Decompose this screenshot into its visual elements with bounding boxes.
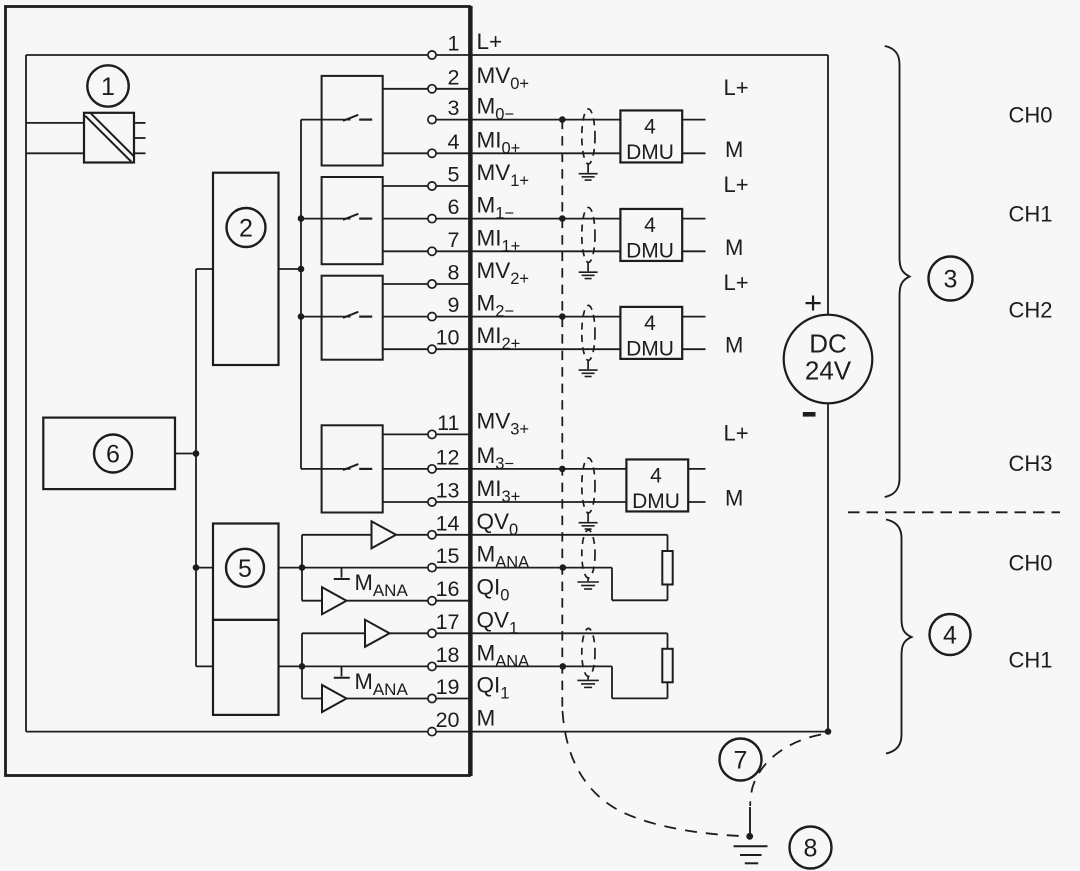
- terminal 9 circle: [428, 313, 436, 321]
- switch S3 fixed contact: [359, 316, 372, 318]
- terminal 19 label QI1: [477, 673, 510, 703]
- svg-text:CH0: CH0: [1009, 551, 1053, 576]
- svg-text:4: 4: [448, 130, 460, 154]
- terminal 13 pin number: [436, 479, 460, 503]
- wire switch S2 bottom output row 7: [383, 250, 432, 252]
- wire row 18 M_ANA: [279, 665, 613, 667]
- node row18 shield tap: [560, 663, 567, 670]
- svg-text:8: 8: [804, 835, 818, 863]
- svg-text:MV0+: MV0+: [477, 63, 530, 93]
- switch S1 fixed contact: [359, 118, 372, 120]
- label L+ ch1: [724, 172, 749, 197]
- terminal 14 label QV0: [477, 509, 519, 539]
- terminal 13 label MI3+: [477, 476, 521, 506]
- wire output bus ch1 vertical: [301, 633, 303, 698]
- shield ground ch1 output: [577, 676, 599, 687]
- wire M row terminal 6 to DMU: [432, 218, 620, 220]
- DMU box 4 ch2: [620, 307, 682, 361]
- DMU box 4 ch0: [620, 110, 682, 164]
- wire switch S1 top output row 2: [383, 88, 432, 90]
- terminal 14 circle: [428, 531, 436, 539]
- wire L+ rail row 1: [26, 54, 828, 56]
- svg-text:L+: L+: [724, 420, 749, 445]
- brace group 4: [886, 520, 912, 754]
- terminal 2 label MV0+: [477, 63, 530, 93]
- wire switch S4 middle output row 12: [383, 468, 432, 470]
- svg-text:M: M: [725, 333, 743, 358]
- block 6 controller box: [43, 418, 175, 490]
- svg-text:5: 5: [238, 555, 252, 583]
- DC 24V source: [784, 315, 873, 404]
- label CH2 input: [1009, 298, 1053, 323]
- node row15 bus junction: [299, 564, 306, 571]
- svg-text:CH1: CH1: [1009, 647, 1053, 672]
- callout circle 7: [720, 739, 762, 781]
- switch S3 blade: [343, 312, 358, 318]
- terminal 5 label MV1+: [477, 160, 530, 190]
- svg-text:M: M: [725, 137, 743, 162]
- terminal 19 circle: [428, 694, 436, 702]
- dashed group separator: [848, 511, 1060, 513]
- svg-text:2: 2: [239, 215, 253, 243]
- node mux bus junction row9: [298, 313, 305, 320]
- op-amp QI1: [322, 685, 347, 712]
- terminal 7 label MI1+: [477, 225, 521, 255]
- wire mux bus to switch S2: [301, 218, 351, 220]
- svg-text:4: 4: [650, 464, 662, 487]
- wire block6 to bus: [175, 453, 196, 455]
- wire DMU ch1 out bottom: [682, 250, 705, 252]
- switch S2 fixed contact: [359, 218, 372, 220]
- svg-text:17: 17: [436, 610, 460, 634]
- svg-text:+: +: [804, 285, 822, 320]
- wire to amp QV0: [302, 534, 372, 536]
- wire DMU ch2 out bottom: [682, 348, 705, 350]
- terminal 11 pin number: [437, 411, 459, 435]
- svg-text:5: 5: [448, 163, 460, 187]
- wire MI row terminal 13 to DMU: [432, 501, 626, 503]
- label CH0 output: [1009, 551, 1053, 576]
- label CH1 input: [1009, 202, 1053, 227]
- wire QI1 row 19: [347, 698, 470, 700]
- shield ground ch0 output: [577, 578, 599, 589]
- ground connection: [734, 807, 768, 863]
- wire switch S3 middle output row 9: [383, 316, 432, 318]
- svg-text:6: 6: [106, 441, 120, 469]
- node mux bus junction block2: [298, 266, 305, 273]
- callout circle 3: [929, 257, 973, 301]
- wire MI row terminal 4 to DMU: [432, 152, 620, 154]
- switch box S4: [322, 425, 383, 512]
- svg-text:MANA: MANA: [355, 570, 409, 600]
- load resistor R2: [612, 633, 673, 698]
- svg-text:M: M: [725, 235, 743, 260]
- wire switch S3 top output row 8: [383, 283, 432, 285]
- callout circle 6: [94, 435, 132, 473]
- block 2 multiplexer box: [213, 173, 279, 365]
- shield bus dashed line: [561, 120, 563, 709]
- terminal 16 circle: [428, 597, 436, 605]
- terminal 11 label MV3+: [477, 408, 530, 438]
- svg-text:MV3+: MV3+: [477, 408, 530, 438]
- switch box S2: [322, 177, 383, 264]
- callout circle 2: [227, 208, 266, 247]
- wire DMU ch1 out top: [682, 218, 705, 220]
- wire mux bus to switch S1: [301, 119, 351, 121]
- terminal 3 circle: [428, 116, 436, 124]
- node shield tap row 9: [559, 313, 566, 320]
- terminal 4 circle: [428, 149, 436, 157]
- switch S4 fixed contact: [359, 468, 372, 470]
- node M rail / DC minus junction: [825, 728, 832, 735]
- block 5 DAC box upper: [213, 524, 279, 620]
- svg-text:QI1: QI1: [477, 673, 510, 703]
- callout circle 5: [226, 549, 264, 587]
- switch S2 blade: [343, 214, 358, 220]
- terminal 5 circle: [428, 182, 436, 190]
- wire MV row terminal 5: [432, 185, 469, 187]
- terminal 8 circle: [428, 280, 436, 288]
- svg-text:4: 4: [644, 312, 656, 335]
- wire DMU ch3 out bottom: [688, 501, 705, 503]
- wire switch S1 bottom output row 4: [383, 152, 432, 154]
- label M ch2: [725, 333, 743, 358]
- wire row 15 M_ANA: [279, 567, 613, 569]
- svg-text:11: 11: [437, 411, 459, 435]
- svg-text:MANA: MANA: [355, 669, 409, 699]
- svg-text:14: 14: [436, 511, 460, 535]
- terminal 2 circle: [428, 85, 436, 93]
- svg-text:15: 15: [436, 544, 460, 568]
- svg-text:1: 1: [448, 32, 460, 56]
- terminal 8 label MV2+: [477, 258, 530, 288]
- label L+ ch2: [724, 270, 749, 295]
- wire supply rail to DC source: [827, 55, 829, 732]
- wire block2 right to mux bus: [279, 268, 302, 270]
- wire M row terminal 12 to DMU: [432, 468, 626, 470]
- cable shield ellipse ch1 input: [582, 207, 595, 262]
- terminal 8 pin number: [448, 261, 460, 285]
- wire MV row terminal 2: [432, 88, 469, 90]
- svg-text:L+: L+: [724, 270, 749, 295]
- op-amp QV1: [365, 620, 390, 647]
- svg-text:7: 7: [734, 747, 748, 775]
- svg-text:13: 13: [436, 479, 460, 503]
- terminal 10 circle: [428, 345, 436, 353]
- wire DMU ch2 out top: [682, 316, 705, 318]
- svg-text:10: 10: [436, 326, 460, 350]
- node mux bus junction row6: [298, 215, 305, 222]
- terminal 9 label M2−: [477, 291, 515, 321]
- wire MI row terminal 7 to DMU: [432, 250, 620, 252]
- cable shield ellipse ch2 input: [582, 305, 595, 360]
- terminal 12 label M3−: [477, 443, 515, 473]
- terminal 3 label M0−: [477, 94, 515, 124]
- load resistor R1: [612, 535, 673, 601]
- svg-text:3: 3: [944, 266, 958, 294]
- module enclosure outline: [6, 6, 472, 776]
- terminal 6 circle: [428, 215, 436, 223]
- terminal 17 circle: [428, 629, 436, 637]
- wire MV row terminal 11: [432, 433, 469, 435]
- shield ground ch2 input: [579, 360, 598, 376]
- svg-text:7: 7: [448, 228, 460, 252]
- shield ground ch0 input: [579, 164, 598, 180]
- node block5 bus junction: [193, 564, 200, 571]
- DMU box 4 ch1: [620, 209, 682, 263]
- brace group 3: [885, 46, 910, 497]
- wire psu input upper: [26, 122, 84, 124]
- svg-text:CH3: CH3: [1009, 451, 1053, 476]
- terminal 10 pin number: [436, 326, 460, 350]
- callout circle 1: [87, 65, 128, 106]
- svg-text:3: 3: [448, 96, 460, 120]
- terminal 18 label MANA: [477, 640, 530, 670]
- wire switch S2 top output row 5: [383, 185, 432, 187]
- wire mux bus to switch S3: [301, 316, 351, 318]
- cable shield ellipse ch0 output: [582, 530, 595, 578]
- wire QI0 row 16: [347, 600, 470, 602]
- svg-text:DMU: DMU: [626, 337, 674, 360]
- DMU box 4 ch3: [626, 459, 688, 513]
- label L+ ch3: [724, 420, 749, 445]
- dashed shield curve right: [750, 735, 821, 807]
- label minus: [803, 412, 816, 417]
- terminal 14 pin number: [436, 511, 460, 535]
- terminal 13 circle: [428, 498, 436, 506]
- wire DMU ch3 out top: [688, 468, 705, 470]
- svg-text:4: 4: [644, 214, 656, 237]
- svg-text:CH0: CH0: [1009, 103, 1053, 128]
- wire mux bus vertical: [300, 120, 302, 469]
- terminal 20 label M: [477, 706, 496, 731]
- wire mux bus to switch S4: [301, 468, 351, 470]
- terminal 20 circle: [428, 728, 436, 736]
- terminal 7 pin number: [448, 228, 460, 252]
- terminal 20 pin number: [436, 708, 460, 732]
- wire to amp QI1: [302, 698, 322, 700]
- op-amp QV0: [372, 521, 397, 548]
- terminal 1 pin number: [448, 32, 460, 56]
- terminal 17 pin number: [436, 610, 460, 634]
- cable shield ellipse ch1 output: [582, 628, 595, 676]
- terminal 10 label MI2+: [477, 323, 521, 353]
- label M_ANA internal ch0: [355, 570, 409, 600]
- terminal 16 label QI0: [477, 575, 510, 605]
- label CH3 input: [1009, 451, 1053, 476]
- terminal 7 circle: [428, 247, 436, 255]
- wire switch S2 middle output row 6: [383, 218, 432, 220]
- label L+ ch0: [724, 75, 749, 100]
- terminal 6 label M1−: [477, 193, 515, 223]
- svg-text:L+: L+: [477, 29, 503, 54]
- svg-text:DMU: DMU: [626, 141, 674, 164]
- node shield tap row 6: [559, 215, 566, 222]
- svg-text:CH2: CH2: [1009, 298, 1053, 323]
- wire switch S4 bottom output row 13: [383, 501, 432, 503]
- svg-text:QI0: QI0: [477, 575, 510, 605]
- switch S1 blade: [343, 115, 358, 121]
- wire M row terminal 9 to DMU: [432, 316, 620, 318]
- terminal 11 circle: [428, 430, 436, 438]
- terminal 15 label MANA: [477, 542, 530, 572]
- node shield tap row 12: [559, 466, 566, 473]
- node row18 bus junction: [299, 663, 306, 670]
- op-amp QI0: [322, 587, 347, 614]
- terminal 6 pin number: [448, 195, 460, 219]
- svg-text:L+: L+: [724, 75, 749, 100]
- wire MI row terminal 10 to DMU: [432, 348, 620, 350]
- terminal 12 pin number: [436, 445, 460, 469]
- switch S4 blade: [343, 464, 358, 470]
- callout circle 8: [790, 827, 832, 869]
- block 5 DAC box lower: [213, 620, 279, 715]
- terminal 5 pin number: [448, 163, 460, 187]
- wire to amp QV1: [302, 632, 365, 634]
- svg-text:12: 12: [436, 445, 460, 469]
- svg-text:18: 18: [436, 643, 460, 667]
- node block6 bus junction: [193, 450, 200, 457]
- label M ch0: [725, 137, 743, 162]
- svg-text:8: 8: [448, 261, 460, 285]
- terminal 12 circle: [428, 465, 436, 473]
- svg-text:2: 2: [448, 65, 460, 89]
- terminal 9 pin number: [448, 293, 460, 317]
- wire M row terminal 3 to DMU: [432, 119, 620, 121]
- terminal 15 circle: [428, 564, 436, 572]
- terminal 4 pin number: [448, 130, 460, 154]
- M_ANA tap symbol QI1: [334, 666, 350, 677]
- wire DMU ch0 out top: [682, 119, 705, 121]
- wire to amp QI0: [302, 600, 322, 602]
- label M ch1: [725, 235, 743, 260]
- svg-text:16: 16: [436, 577, 460, 601]
- wire M rail row 20: [26, 731, 828, 733]
- wire QV1 row 17: [390, 632, 668, 634]
- label M_ANA internal ch1: [355, 669, 409, 699]
- wire DMU ch0 out bottom: [682, 152, 705, 154]
- node shield tap row 3: [559, 116, 566, 123]
- svg-text:4: 4: [943, 622, 957, 650]
- terminal 19 pin number: [436, 675, 460, 699]
- svg-text:20: 20: [436, 708, 460, 732]
- terminal 1 label L+: [477, 29, 503, 54]
- svg-text:M: M: [477, 706, 496, 731]
- svg-text:4: 4: [644, 115, 656, 138]
- svg-text:M: M: [725, 486, 743, 511]
- M_ANA tap symbol QI0: [334, 568, 350, 579]
- dashed shield curve left: [563, 711, 747, 836]
- svg-text:9: 9: [448, 293, 460, 317]
- svg-text:6: 6: [448, 195, 460, 219]
- terminal 18 circle: [428, 662, 436, 670]
- wire left L+ bus vertical: [25, 55, 27, 732]
- svg-text:L+: L+: [724, 172, 749, 197]
- wire switch S4 top output row 11: [383, 433, 432, 435]
- terminal 3 pin number: [448, 96, 460, 120]
- terminal 18 pin number: [436, 643, 460, 667]
- power supply converter box: [84, 113, 146, 163]
- label CH1 output: [1009, 647, 1053, 672]
- wire MV row terminal 8: [432, 283, 469, 285]
- node row15 shield tap: [560, 564, 567, 571]
- label CH0 input: [1009, 103, 1053, 128]
- svg-text:19: 19: [436, 675, 460, 699]
- svg-text:1: 1: [101, 73, 115, 101]
- terminal 4 label MI0+: [477, 127, 521, 157]
- label M ch3: [725, 486, 743, 511]
- wire block2 left bus: [196, 269, 213, 666]
- svg-text:DMU: DMU: [632, 490, 680, 513]
- svg-text:DC: DC: [809, 329, 847, 359]
- label plus: [804, 285, 822, 320]
- terminal 16 pin number: [436, 577, 460, 601]
- wire output bus ch0 vertical: [301, 535, 303, 601]
- svg-text:MV2+: MV2+: [477, 258, 530, 288]
- cable shield ellipse ch0 input: [582, 109, 595, 164]
- callout circle 4: [930, 614, 971, 655]
- cable shield ellipse ch3 input: [582, 458, 595, 513]
- terminal 15 pin number: [436, 544, 460, 568]
- shield ground ch1 input: [579, 262, 598, 278]
- svg-text:MV1+: MV1+: [477, 160, 530, 190]
- wire switch S3 bottom output row 10: [383, 348, 432, 350]
- svg-text:DMU: DMU: [626, 239, 674, 262]
- switch box S1: [322, 76, 383, 166]
- terminal 1 circle: [428, 51, 436, 59]
- wire bus to block5: [196, 567, 213, 569]
- terminal 2 pin number: [448, 65, 460, 89]
- wire psu input lower: [26, 152, 84, 154]
- switch box S3: [322, 276, 383, 360]
- svg-text:24V: 24V: [805, 356, 852, 386]
- shield ground ch3 input: [579, 513, 598, 529]
- terminal 17 label QV1: [477, 607, 519, 637]
- wire QV0 row 14: [396, 534, 668, 536]
- svg-text:CH1: CH1: [1009, 202, 1053, 227]
